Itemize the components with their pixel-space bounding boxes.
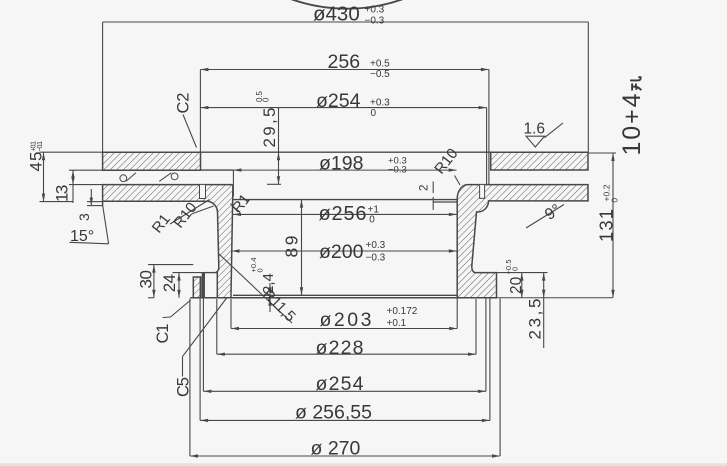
svg-text:ø254: ø254 [316, 90, 361, 112]
svg-text:23,5: 23,5 [526, 299, 545, 340]
svg-text:3: 3 [76, 213, 92, 221]
svg-text:ø 256,55: ø 256,55 [295, 402, 372, 424]
svg-text:2: 2 [419, 185, 431, 191]
svg-text:−0.3: −0.3 [366, 253, 386, 264]
svg-text:+0.3: +0.3 [366, 240, 386, 251]
svg-text:C2: C2 [175, 93, 193, 114]
svg-text:20: 20 [508, 276, 525, 294]
svg-text:−0.3: −0.3 [388, 165, 407, 176]
svg-text:0: 0 [256, 268, 265, 272]
svg-text:−0.1: −0.1 [37, 141, 44, 152]
svg-text:0: 0 [511, 267, 520, 271]
svg-text:0: 0 [610, 198, 620, 203]
svg-text:+0.3: +0.3 [365, 5, 385, 16]
svg-text:+0.3: +0.3 [370, 98, 390, 109]
svg-text:30: 30 [137, 270, 156, 289]
svg-text:C1: C1 [154, 324, 172, 344]
svg-text:ø200: ø200 [319, 241, 364, 263]
svg-text:24: 24 [160, 274, 179, 292]
svg-text:+0.1: +0.1 [387, 318, 407, 329]
svg-text:0: 0 [262, 97, 271, 102]
svg-text:131: 131 [595, 209, 616, 242]
svg-text:+0.5: +0.5 [370, 59, 390, 70]
svg-text:−0.3: −0.3 [365, 16, 385, 27]
svg-text:−0.5: −0.5 [370, 69, 390, 80]
svg-text:ø 270: ø 270 [311, 438, 361, 460]
svg-text:1.6: 1.6 [524, 121, 546, 138]
svg-text:0: 0 [371, 108, 377, 119]
svg-text:ø256: ø256 [319, 203, 367, 225]
svg-text:45: 45 [27, 152, 46, 172]
svg-text:13: 13 [53, 185, 72, 202]
svg-text:29,5: 29,5 [260, 108, 279, 148]
svg-text:15°: 15° [70, 228, 94, 245]
svg-text:C5: C5 [175, 377, 193, 397]
svg-text:10+4: 10+4 [618, 93, 646, 155]
svg-text:ø198: ø198 [319, 152, 363, 174]
svg-text:0: 0 [369, 214, 375, 225]
svg-text:+0.172: +0.172 [387, 306, 418, 317]
svg-text:ø430: ø430 [313, 3, 360, 26]
svg-text:256: 256 [328, 51, 361, 73]
